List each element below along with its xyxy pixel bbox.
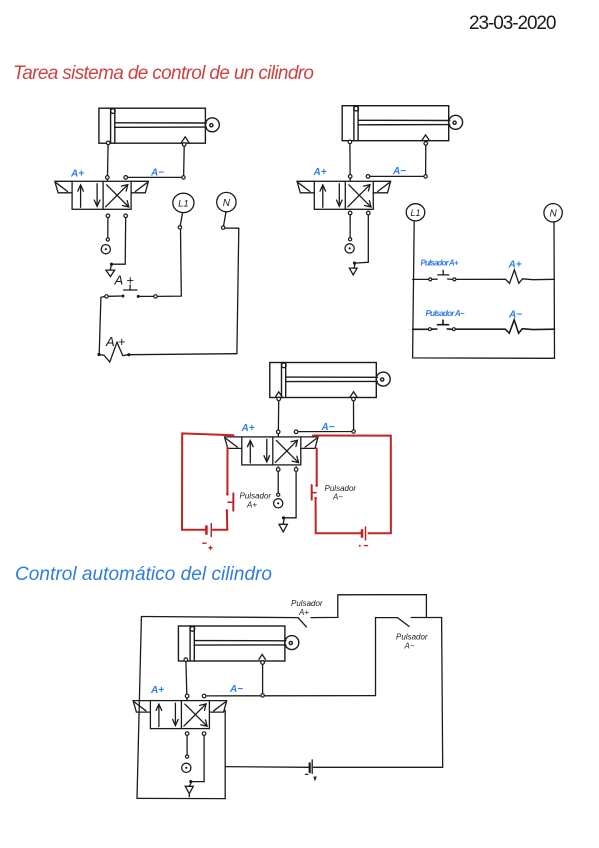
svg-text:A+: A+ [241,423,255,434]
svg-text:A +: A + [114,273,135,288]
svg-text:A+: A+ [298,608,309,617]
svg-text:A+: A+ [508,260,522,271]
svg-text:A−: A− [404,642,415,651]
svg-text:A+: A+ [313,167,327,178]
svg-text:A+: A+ [246,501,257,510]
svg-text:Control automático del cilindr: Control automático del cilindro [15,564,272,585]
svg-text:L1: L1 [178,199,189,210]
svg-text:Pulsador A−: Pulsador A− [426,309,465,318]
svg-text:A−: A− [508,310,522,321]
svg-text:L1: L1 [410,208,420,218]
svg-text:N: N [549,208,557,219]
svg-text:Pulsador: Pulsador [396,633,428,642]
svg-text:A−: A− [332,493,343,502]
svg-text:A−: A− [150,168,164,179]
svg-text:A−: A− [392,166,406,177]
svg-text:Pulsador: Pulsador [291,599,323,608]
svg-text:A+: A+ [150,685,164,696]
svg-text:A+: A+ [70,169,84,180]
svg-text:A−: A− [321,422,335,433]
svg-text:A +: A + [105,334,126,349]
svg-text:Pulsador: Pulsador [240,492,272,501]
svg-text:N: N [223,198,231,209]
svg-text:23-03-2020: 23-03-2020 [469,13,557,34]
svg-text:Tarea sistema de control de un: Tarea sistema de control de un cilindro [13,63,314,84]
svg-text:Pulsador A+: Pulsador A+ [421,259,459,268]
svg-text:A−: A− [229,684,243,695]
